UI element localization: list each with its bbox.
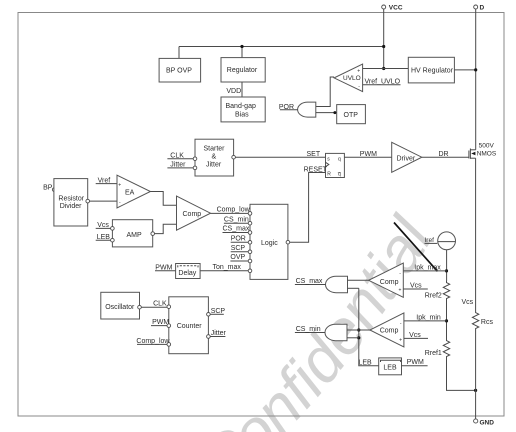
svg-text:Vcs: Vcs xyxy=(409,332,421,339)
svg-text:Ton_max: Ton_max xyxy=(213,264,242,271)
svg-text:q̅: q̅ xyxy=(337,171,341,177)
svg-text:SCP: SCP xyxy=(231,245,246,252)
svg-text:Comp_low: Comp_low xyxy=(136,338,170,345)
svg-text:PWM: PWM xyxy=(360,151,377,158)
svg-text:UVLO: UVLO xyxy=(343,75,361,82)
svg-text:Vcs: Vcs xyxy=(410,283,422,290)
svg-text:CS_max: CS_max xyxy=(223,226,250,233)
svg-text:&: & xyxy=(212,154,217,161)
svg-text:Bias: Bias xyxy=(235,112,249,119)
svg-text:Comp_low: Comp_low xyxy=(217,206,251,213)
svg-text:+: + xyxy=(399,288,402,294)
svg-text:HV Regulator: HV Regulator xyxy=(411,67,454,74)
svg-text:OVP: OVP xyxy=(230,254,245,261)
svg-text:Jitter: Jitter xyxy=(211,330,227,337)
svg-text:PWM: PWM xyxy=(407,359,424,366)
svg-text:Comp: Comp xyxy=(380,327,399,334)
svg-text:CLK: CLK xyxy=(170,152,184,159)
svg-text:SET: SET xyxy=(307,151,321,158)
svg-text:CS_max: CS_max xyxy=(296,278,323,285)
svg-text:NMOS: NMOS xyxy=(477,151,497,158)
svg-text:Oscillator: Oscillator xyxy=(105,304,135,311)
svg-text:+: + xyxy=(118,182,121,188)
svg-text:+: + xyxy=(357,69,360,75)
svg-text:EA: EA xyxy=(125,189,135,196)
svg-text:CLK: CLK xyxy=(153,301,167,308)
svg-text:Comp: Comp xyxy=(183,211,202,218)
svg-text:POR: POR xyxy=(231,236,246,243)
svg-text:Vref: Vref xyxy=(98,177,111,184)
svg-text:D: D xyxy=(480,4,485,11)
svg-text:VCC: VCC xyxy=(389,4,403,11)
svg-text:Rref1: Rref1 xyxy=(425,350,442,357)
svg-text:CS_min: CS_min xyxy=(224,216,249,223)
svg-text:Jitter: Jitter xyxy=(206,161,222,168)
svg-text:PWM: PWM xyxy=(155,264,172,271)
svg-text:Vcs: Vcs xyxy=(462,299,474,306)
svg-text:Jitter: Jitter xyxy=(170,162,186,169)
svg-text:BP: BP xyxy=(43,184,53,191)
svg-text:BP OVP: BP OVP xyxy=(166,68,192,75)
svg-text:Starter: Starter xyxy=(204,146,226,153)
svg-text:Ipk_max: Ipk_max xyxy=(414,265,441,272)
svg-text:OTP: OTP xyxy=(344,112,359,119)
svg-text:POR: POR xyxy=(279,104,294,111)
svg-text:Ipk_min: Ipk_min xyxy=(416,315,441,322)
svg-text:Driver: Driver xyxy=(397,156,416,163)
svg-text:Band-gap: Band-gap xyxy=(226,103,256,110)
svg-text:CS_min: CS_min xyxy=(296,326,321,333)
svg-text:Comp: Comp xyxy=(380,279,399,286)
svg-text:SCP: SCP xyxy=(211,308,226,315)
svg-text:Resistor: Resistor xyxy=(58,195,84,202)
svg-text:q: q xyxy=(338,156,341,162)
svg-text:VDD: VDD xyxy=(226,88,241,95)
svg-text:Vref_UVLO: Vref_UVLO xyxy=(365,78,401,85)
svg-text:AMP: AMP xyxy=(127,232,143,239)
svg-text:Rref2: Rref2 xyxy=(425,293,442,300)
svg-text:LEB: LEB xyxy=(383,365,397,372)
svg-text:Delay: Delay xyxy=(178,270,196,277)
svg-text:R: R xyxy=(327,172,331,178)
svg-text:Vcs: Vcs xyxy=(97,222,109,229)
svg-text:LEB: LEB xyxy=(359,359,373,366)
svg-text:Divider: Divider xyxy=(60,203,82,210)
svg-text:Counter: Counter xyxy=(177,323,203,330)
svg-text:Regulator: Regulator xyxy=(227,67,258,74)
svg-text:Rcs: Rcs xyxy=(481,319,494,326)
svg-text:DR: DR xyxy=(439,151,449,158)
svg-text:+: + xyxy=(399,337,402,343)
svg-text:LEB: LEB xyxy=(97,234,111,241)
svg-text:500V: 500V xyxy=(479,143,495,150)
svg-text:Logic: Logic xyxy=(261,240,278,247)
svg-text:RESET: RESET xyxy=(304,166,328,173)
svg-text:GND: GND xyxy=(480,419,495,426)
